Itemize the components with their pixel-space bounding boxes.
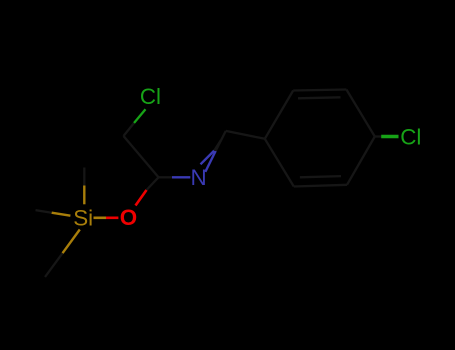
bond Si-CH3 up (carbon half) [83, 168, 85, 186]
benzene ring edge BR-BL [294, 185, 347, 187]
benzene ring inner double bond bottom [300, 176, 341, 177]
bond C-N (carbon half) [159, 176, 173, 178]
bond Si-CH3 down-left (carbon half) [45, 253, 63, 277]
bond ring-Cl2 (green half) [381, 135, 398, 138]
double bond N=CH inner line (carbon half) [214, 140, 221, 151]
bond C-N (nitrogen half) [172, 176, 190, 178]
double bond N=CH main line (nitrogen half) [205, 151, 215, 172]
bond CH2-C [124, 136, 159, 177]
svg-text:O: O [120, 205, 137, 230]
bond Si-CH3 up (silicon half) [83, 186, 85, 205]
bond ring-Cl2 (carbon half) [375, 135, 381, 137]
double bond N=CH inner line (nitrogen half) [201, 151, 215, 165]
benzene ring edge TR-R [346, 90, 374, 137]
svg-text:Cl: Cl [140, 84, 161, 109]
double bond N=CH main line (carbon half) [216, 131, 226, 151]
svg-text:N: N [191, 165, 207, 190]
benzene ring inner double bond top [298, 97, 341, 98]
bond Cl-CH2 (carbon half) [124, 123, 135, 136]
bond Si-CH3 down-left (silicon half) [63, 230, 80, 254]
bond O-Si (silicon half) [94, 217, 107, 220]
benzene ring edge L-TL [265, 91, 293, 139]
svg-text:Cl: Cl [400, 124, 421, 149]
bond Si-CH3 left (silicon half) [52, 213, 71, 216]
bond CH-ring [226, 131, 265, 139]
benzene ring edge R-BR [347, 137, 375, 185]
benzene ring edge BL-L [265, 139, 294, 187]
svg-text:Si: Si [73, 205, 93, 230]
bond C-O (oxygen half) [136, 190, 147, 206]
bond C-O (carbon half) [147, 177, 159, 190]
bond O-Si (oxygen half) [106, 217, 118, 220]
bond Cl-CH2 (green half) [134, 109, 146, 123]
bond Si-CH3 left (carbon half) [36, 210, 52, 213]
benzene ring edge TL-TR [293, 90, 346, 91]
